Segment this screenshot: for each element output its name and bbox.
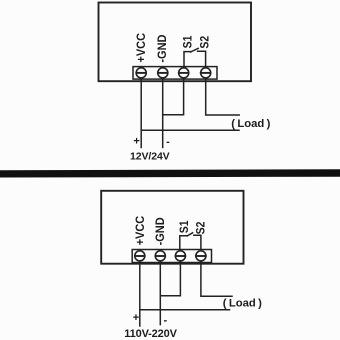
terminal strip TB1 <box>133 67 217 80</box>
svg-text:+VCC: +VCC <box>136 32 149 62</box>
svg-text:S2: S2 <box>195 222 208 235</box>
svg-text:-GND: -GND <box>157 35 170 63</box>
controller box U1 (12V/24V version) <box>99 3 252 82</box>
svg-text:12V/24V: 12V/24V <box>130 151 170 163</box>
terminal strip TB2 <box>132 250 211 263</box>
wire W8: S1 down, link to -GND wire <box>160 261 180 296</box>
terminal 5 (+VCC screw) <box>135 251 145 261</box>
terminal 4 (S2 screw) <box>201 68 211 78</box>
relay contact K2 (between S1 and S2) <box>180 233 201 250</box>
terminal 2 (-GND screw) <box>158 68 168 78</box>
svg-text:+: + <box>133 135 139 147</box>
svg-text:S1: S1 <box>182 36 195 49</box>
wire W3: S1 down, link to -GND wire <box>163 78 184 115</box>
wire W2: -GND down to - supply <box>162 78 164 148</box>
terminal 1 (+VCC screw) <box>136 68 146 78</box>
terminal 7 (S1 screw) <box>175 251 185 261</box>
svg-text:110V-220V: 110V-220V <box>124 328 177 340</box>
wire W7: -GND down to - supply <box>159 261 161 325</box>
controller box U2 (110V-220V version) <box>101 191 243 264</box>
terminal 8 (S2 screw) <box>196 251 206 261</box>
separator bar <box>0 169 340 177</box>
wire W4: S2 down and right to Load <box>206 78 240 115</box>
relay contact K1 (between S1 and S2) <box>184 48 206 66</box>
wire W9: S2 down and right to Load <box>201 261 232 296</box>
wire W1: +VCC down to + supply <box>140 78 142 148</box>
svg-text:-: - <box>166 136 170 148</box>
svg-text:S1: S1 <box>179 220 192 233</box>
svg-text:+VCC: +VCC <box>135 215 148 245</box>
wire W5: + feed across to Load <box>141 129 239 131</box>
svg-text:-GND: -GND <box>155 217 168 245</box>
svg-text:( Load ): ( Load ) <box>223 298 262 310</box>
terminal 6 (-GND screw) <box>155 251 165 261</box>
terminal 3 (S1 screw) <box>179 68 189 78</box>
svg-text:-: - <box>163 314 167 326</box>
svg-text:S2: S2 <box>199 36 212 49</box>
svg-text:( Load ): ( Load ) <box>231 118 270 130</box>
wire W10: + feed across to Load <box>140 309 230 311</box>
wire W6: +VCC down to + supply <box>139 261 141 326</box>
svg-text:+: + <box>133 312 139 324</box>
